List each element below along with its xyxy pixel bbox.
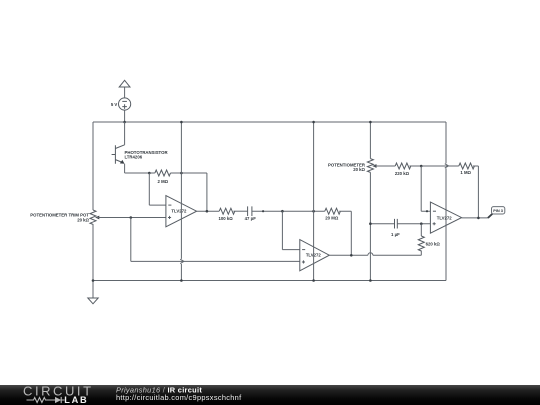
resistor R3 20 MOhm feedback xyxy=(325,208,341,214)
svg-text:100 kΩ: 100 kΩ xyxy=(218,216,233,221)
node dot branch to op2 xyxy=(281,210,284,213)
wire right vertical (with hop at y=166) xyxy=(445,122,447,163)
svg-text:220 kΩ: 220 kΩ xyxy=(395,171,410,176)
wire source to VCC flag xyxy=(124,87,126,98)
svg-text:TLV272: TLV272 xyxy=(171,208,187,213)
wire 220k to 1M (passes hop at 446) xyxy=(410,165,459,167)
potentiometer pot2 wiper arrow xyxy=(372,164,376,168)
node dot 220k/op3 branch xyxy=(420,165,423,168)
node dot op1 out xyxy=(206,210,209,213)
wire left vertical lower xyxy=(92,224,94,281)
svg-text:20 kΩ: 20 kΩ xyxy=(77,217,89,222)
svg-text:http://circuitlab.com/c9ppsxsc: http://circuitlab.com/c9ppsxschchnf xyxy=(116,393,242,402)
svg-text:TLV272: TLV272 xyxy=(437,215,453,220)
svg-text:620 kΩ: 620 kΩ xyxy=(426,242,441,247)
svg-text:20 kΩ: 20 kΩ xyxy=(353,167,365,172)
node dot pot2 bottom rail xyxy=(369,279,372,282)
wire 620k top lead xyxy=(420,224,422,236)
wire vertical V8 through op2 xyxy=(313,122,315,281)
wire vertical V4 through op1 (hop at 261.4) xyxy=(180,122,182,259)
wire 2M to feedback corner xyxy=(171,173,207,211)
voltage source V1 5V branch wire xyxy=(124,110,126,122)
resistor R1 2 MOhm xyxy=(155,170,171,176)
wire 1uF node horizontal xyxy=(370,223,394,225)
wire down from wiper node to op2 + input xyxy=(131,218,300,262)
node dot feedback/V4 xyxy=(180,172,183,175)
wire down to op2 inverting input xyxy=(282,211,299,249)
wire pot2 lower vertical xyxy=(369,172,371,280)
node dot near op3 - input xyxy=(426,210,428,212)
svg-text:5 V: 5 V xyxy=(111,102,118,107)
wire 100k to cap xyxy=(233,210,247,212)
wire to op1 inverting input xyxy=(149,173,166,205)
potentiometer R pot1 TRIM POT 20k body xyxy=(90,210,96,224)
svg-text:LTR4206: LTR4206 xyxy=(125,155,143,160)
capacitor C1 47 pF xyxy=(248,206,252,216)
node dot bottom-left xyxy=(92,279,95,282)
phototransistor Q1 LTR4206 xyxy=(124,122,126,145)
op-amp U3 TLV272 xyxy=(430,202,461,233)
potentiometer pot2 20k body xyxy=(367,159,373,173)
wire op3 output xyxy=(462,217,488,219)
capacitor C2 1 uF xyxy=(395,219,398,229)
svg-text:2 MΩ: 2 MΩ xyxy=(157,179,168,184)
node dot V8 crossing xyxy=(312,210,315,213)
wire 1uF to op3 + input xyxy=(398,223,431,225)
node dot feedback/out junction xyxy=(350,254,353,257)
svg-text:1 µF: 1 µF xyxy=(391,232,400,237)
wire pot1 wiper to op1 + input xyxy=(97,217,166,219)
node dot emitter junction xyxy=(148,172,151,175)
node dot 620k top xyxy=(420,222,423,225)
wire bottom rail xyxy=(93,280,446,282)
node dot small mid xyxy=(262,210,264,212)
wire 1M to output corner xyxy=(473,166,479,218)
node dot pot2 top xyxy=(369,121,372,124)
resistor R6 620 kOhm xyxy=(418,236,424,251)
svg-text:20 MΩ: 20 MΩ xyxy=(325,216,339,221)
node dot wiper branch xyxy=(130,216,133,219)
wire top rail xyxy=(93,121,446,123)
wire op1 output xyxy=(197,210,220,212)
wire left vertical xyxy=(92,122,94,210)
node dot pot2/1uF xyxy=(369,222,372,225)
svg-text:1 MΩ: 1 MΩ xyxy=(460,170,471,175)
node dots on V4 xyxy=(180,121,183,124)
resistor R4 220 kOhm xyxy=(395,163,411,169)
wire 620k bottom lead xyxy=(420,251,422,256)
node dot source/rail xyxy=(123,121,126,124)
wire cap to op2 region xyxy=(252,210,325,212)
wire op2 output (hop over pot2 line) xyxy=(329,254,368,256)
potentiometer R pot2 20k top wire xyxy=(369,122,371,159)
svg-text:PIN 3: PIN 3 xyxy=(493,208,504,213)
potentiometer pot1 wiper arrow xyxy=(95,216,99,220)
wire down to op3 inverting input xyxy=(421,166,430,211)
PIN 3 flag tail xyxy=(488,214,493,218)
VCC node flag (up triangle) xyxy=(119,80,130,87)
resistor R5 1 MOhm xyxy=(459,163,475,169)
svg-text:LAB: LAB xyxy=(64,395,88,405)
logo resistor-diode squiggle xyxy=(27,398,56,403)
op-amp U1 TLV272 xyxy=(166,196,197,227)
op-amp U2 TLV272 xyxy=(300,240,330,271)
wire emitter node H2 xyxy=(125,172,155,174)
svg-text:47 pF: 47 pF xyxy=(245,216,257,221)
wire 20M to output corner xyxy=(339,211,351,255)
voltage source V1 5V xyxy=(119,98,131,110)
wire pot2 wiper to 220k xyxy=(374,165,396,167)
PIN 3 flag xyxy=(492,207,505,214)
ground xyxy=(92,281,94,299)
resistor R2 100 kOhm xyxy=(219,208,235,214)
node dot op3 out/feedback xyxy=(477,217,480,220)
